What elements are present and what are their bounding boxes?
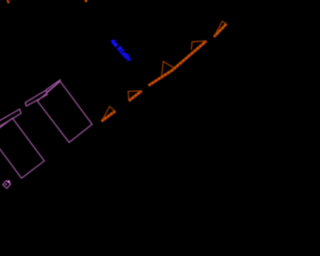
bar A (thin terrace left) [0,109,21,128]
top edge speck: dot [85,0,88,2]
triangle T2 [128,91,142,101]
triangle T4 [191,41,206,50]
bar B (thin terrace right) [25,90,47,106]
top edge speck: streak [7,0,9,3]
thick dashes [102,24,227,122]
blue label text (rotated) [109,38,132,63]
triangle T5 [214,21,226,36]
awning double line near B2 top-right corner [46,80,61,93]
dash S1 (triangle T1 base) [102,111,116,121]
triangle T1 [103,106,115,119]
dash S3 (long, with slight bend) [149,41,207,86]
dash S4 (triangle T5 base) [214,24,227,37]
bright dash texture overlay on the line [102,24,227,122]
purple buildings group [0,80,92,179]
triangle outlines [103,21,227,119]
dash S2 (triangle T2 base) [129,91,142,101]
building B1 (left rectangle) [0,118,44,178]
small square symbol with dot [3,180,11,188]
building B2 (right rectangle) [37,81,92,142]
triangle T3 [162,61,175,77]
orange power line [7,0,226,121]
